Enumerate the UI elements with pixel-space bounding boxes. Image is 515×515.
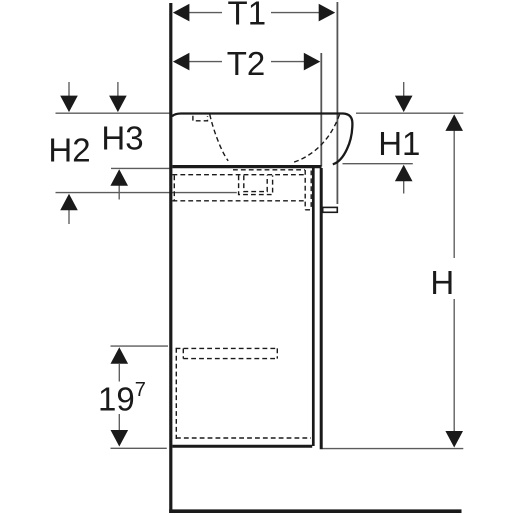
svg-text:19: 19 xyxy=(98,381,135,418)
svg-text:H1: H1 xyxy=(378,125,420,162)
svg-text:T1: T1 xyxy=(228,0,267,32)
svg-text:H3: H3 xyxy=(101,120,143,157)
svg-text:H2: H2 xyxy=(48,132,90,169)
svg-text:H: H xyxy=(430,264,454,301)
svg-text:T2: T2 xyxy=(227,45,266,82)
svg-text:7: 7 xyxy=(135,379,146,401)
